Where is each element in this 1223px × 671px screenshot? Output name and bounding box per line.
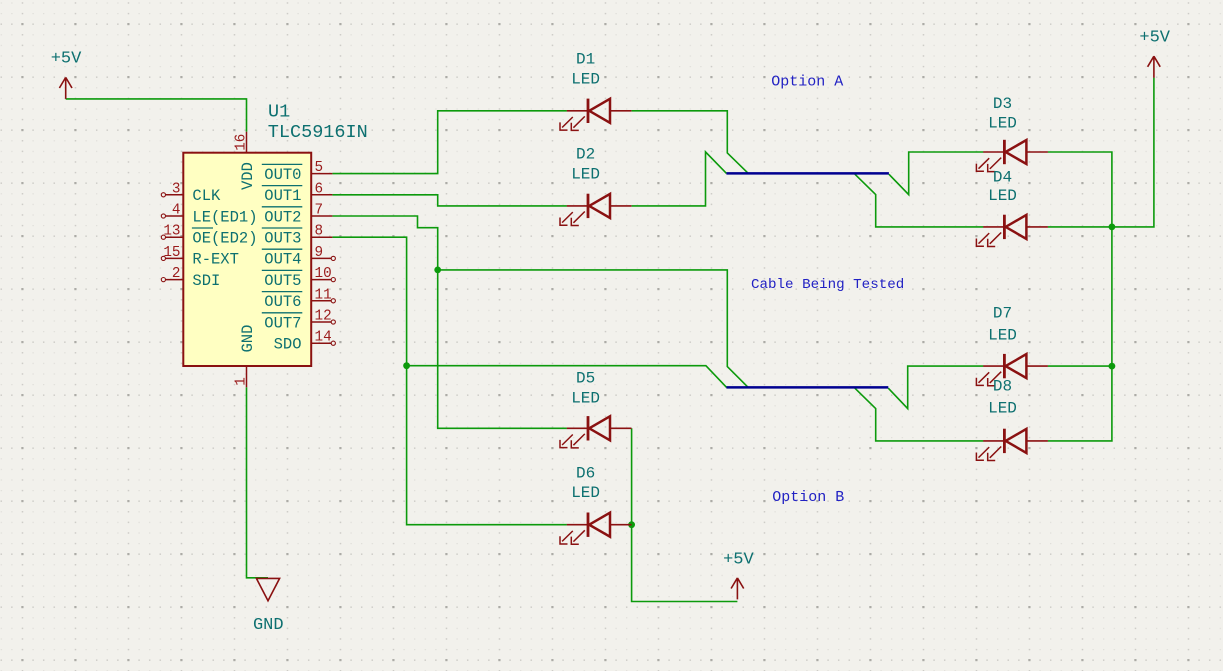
svg-text:SDI: SDI [192, 272, 220, 290]
svg-text:16: 16 [233, 134, 249, 151]
svg-text:D4: D4 [993, 169, 1012, 187]
svg-text:13: 13 [163, 224, 180, 240]
svg-text:11: 11 [315, 287, 332, 303]
svg-text:OE(ED2): OE(ED2) [192, 230, 257, 248]
svg-text:LED: LED [988, 115, 1017, 133]
svg-text:VDD: VDD [239, 162, 257, 190]
svg-text:OUT1: OUT1 [264, 187, 301, 205]
svg-text:R-EXT: R-EXT [192, 251, 239, 269]
svg-text:Cable Being Tested: Cable Being Tested [751, 277, 904, 293]
svg-text:15: 15 [163, 245, 180, 261]
svg-text:LED: LED [571, 165, 600, 183]
svg-text:OUT2: OUT2 [264, 208, 301, 226]
svg-text:D1: D1 [576, 50, 595, 68]
svg-text:OUT3: OUT3 [264, 230, 301, 248]
svg-text:LED: LED [571, 70, 600, 88]
svg-text:3: 3 [172, 181, 181, 197]
svg-text:CLK: CLK [192, 187, 221, 205]
svg-text:+5V: +5V [1139, 29, 1170, 48]
svg-text:OUT7: OUT7 [264, 314, 301, 332]
svg-text:5: 5 [315, 160, 324, 176]
svg-text:8: 8 [315, 224, 324, 240]
svg-text:GND: GND [253, 616, 284, 635]
svg-text:OUT6: OUT6 [264, 293, 301, 311]
svg-text:SDO: SDO [274, 336, 302, 354]
svg-text:TLC5916IN: TLC5916IN [268, 122, 368, 143]
svg-text:2: 2 [172, 266, 181, 282]
svg-text:14: 14 [315, 330, 332, 346]
svg-text:Option B: Option B [772, 489, 844, 506]
svg-text:12: 12 [315, 309, 332, 325]
svg-text:LED: LED [571, 389, 600, 407]
svg-text:1: 1 [233, 377, 249, 386]
svg-text:LE(ED1): LE(ED1) [192, 208, 257, 226]
svg-text:D5: D5 [576, 369, 595, 387]
svg-text:D8: D8 [993, 377, 1012, 395]
svg-text:OUT4: OUT4 [264, 251, 301, 269]
svg-text:10: 10 [315, 266, 332, 282]
svg-text:U1: U1 [268, 102, 290, 123]
svg-text:9: 9 [315, 245, 324, 261]
svg-text:GND: GND [239, 325, 257, 353]
svg-text:D2: D2 [576, 145, 595, 163]
svg-text:4: 4 [172, 203, 181, 219]
svg-text:OUT5: OUT5 [264, 272, 301, 290]
svg-text:OUT0: OUT0 [264, 166, 301, 184]
svg-text:LED: LED [988, 400, 1017, 418]
svg-text:D3: D3 [993, 95, 1012, 113]
svg-text:6: 6 [315, 181, 324, 197]
svg-text:+5V: +5V [723, 551, 754, 570]
svg-text:D7: D7 [993, 304, 1012, 322]
svg-text:Option A: Option A [771, 73, 843, 90]
svg-text:D6: D6 [576, 464, 595, 482]
svg-text:LED: LED [988, 187, 1017, 205]
svg-text:LED: LED [571, 484, 600, 502]
svg-text:+5V: +5V [51, 50, 82, 69]
svg-text:7: 7 [315, 203, 324, 219]
svg-text:LED: LED [988, 327, 1017, 345]
